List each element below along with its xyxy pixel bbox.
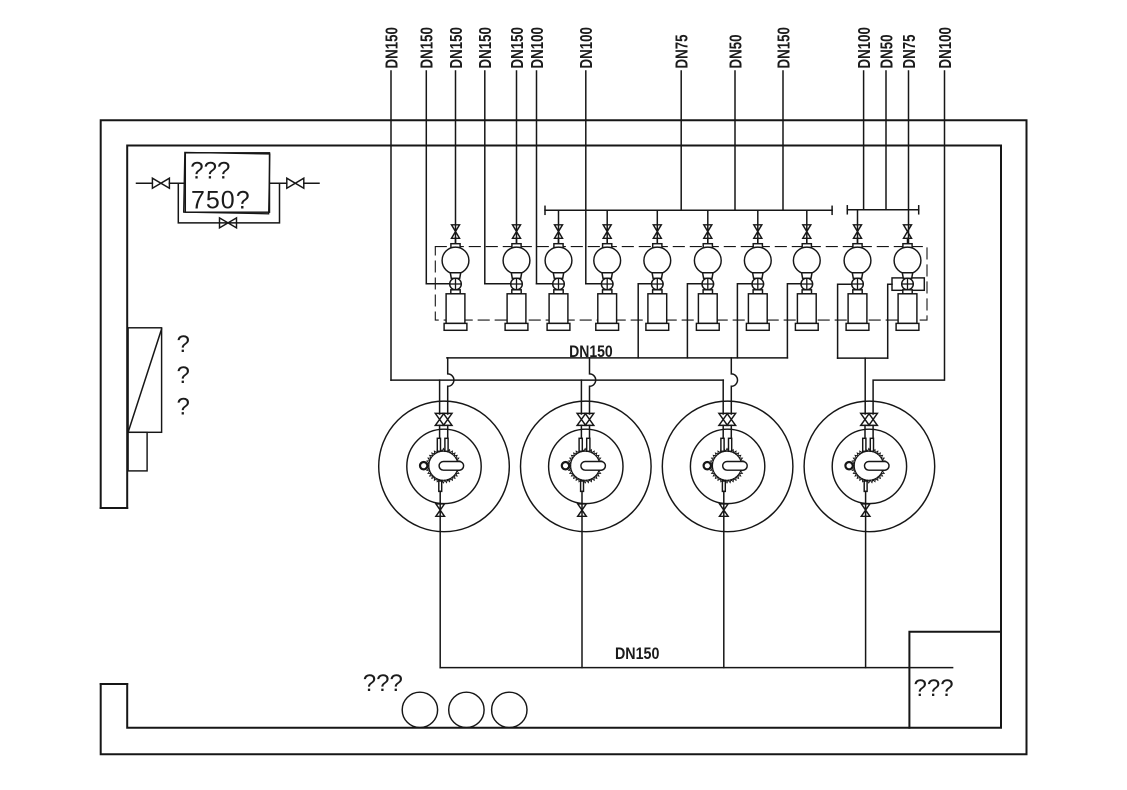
pipe: riser to P3 check valve xyxy=(537,283,553,285)
pump P2 lower flange xyxy=(512,290,521,294)
pump P7 check valve horizontal bar xyxy=(752,283,764,285)
B3 left feed pipe xyxy=(722,425,724,438)
riser pipe DN50 (to header H2) xyxy=(885,71,887,210)
header H1 left end tick xyxy=(544,206,546,214)
pump P7 lower flange xyxy=(753,290,762,294)
riser pipe DN100 (feeds big pump B4 right) xyxy=(873,71,944,414)
pump P4 body xyxy=(594,247,621,274)
pump P5 check valve horizontal bar xyxy=(652,283,664,285)
B1 bottom nozzle xyxy=(439,481,442,491)
valve on B3 discharge xyxy=(720,504,729,516)
pump P4 check valve horizontal bar xyxy=(601,283,613,285)
header H1 drop to pump at x=707.8 xyxy=(707,210,709,243)
svg-text:750?: 750? xyxy=(191,186,251,214)
pump P1 neck xyxy=(450,273,460,279)
pump P5 inlet stub xyxy=(656,238,658,243)
riser pipe DN150 (to pump P2 check valve) xyxy=(484,71,486,284)
svg-text:DN150: DN150 xyxy=(477,27,496,68)
svg-text:DN150: DN150 xyxy=(615,645,660,663)
valve on B2 left feed xyxy=(577,413,586,425)
floor drain circle 2 xyxy=(449,692,484,727)
B3 impeller gear xyxy=(712,451,741,480)
pump P10 inlet stub xyxy=(907,238,909,243)
pump P8 check valve vertical bar xyxy=(806,278,808,290)
B3 right nozzle xyxy=(729,438,732,451)
pump P3 check valve vertical bar xyxy=(558,278,560,290)
pump P10 casing xyxy=(898,294,917,324)
svg-text:?: ? xyxy=(177,394,190,421)
B3 shaft key slot xyxy=(723,462,748,471)
svg-text:DN100: DN100 xyxy=(528,27,547,68)
pump P3 casing xyxy=(549,294,568,324)
valve on bypass xyxy=(220,218,237,228)
pump P6 body xyxy=(694,247,721,274)
pump P2 check valve xyxy=(511,278,523,290)
pump P2 base plate xyxy=(505,323,528,330)
pipe valve to heat exchanger xyxy=(169,182,184,184)
B2 impeller gear xyxy=(571,451,600,480)
pump P3 base plate xyxy=(547,323,570,330)
svg-text:DN50: DN50 xyxy=(727,35,746,69)
svg-text:DN100: DN100 xyxy=(855,27,874,68)
pump P8 base plate xyxy=(795,323,818,330)
header H2 right end tick xyxy=(918,206,920,214)
pump P1 casing xyxy=(446,294,465,324)
pump P10 neck xyxy=(902,273,912,279)
valve on B3 right feed xyxy=(727,413,736,425)
riser pipe DN50 (to header H1) xyxy=(734,71,736,210)
pipe: P7 discharge down to upper manifold xyxy=(737,284,752,358)
riser pipe DN75 (to header H1) xyxy=(680,71,682,210)
B3 shaft end xyxy=(704,462,711,469)
pump P1 check valve xyxy=(450,278,462,290)
pump P3 inlet stub xyxy=(558,238,560,243)
B2 left feed pipe xyxy=(580,425,582,438)
pipe: riser to P2 check valve xyxy=(485,283,511,285)
header H2 drop to pump P9 xyxy=(857,210,859,244)
B2 discharge pipe down to bottom manifold xyxy=(581,491,583,667)
pump P9 check valve xyxy=(852,278,864,290)
pipe: P8 discharge down to upper manifold xyxy=(787,284,801,358)
B2 right feed pipe xyxy=(589,425,591,438)
pump P4 top flange xyxy=(603,244,612,248)
header H1 right end tick xyxy=(831,206,833,214)
valve on B4 right feed xyxy=(869,413,878,425)
B1 discharge pipe down to bottom manifold xyxy=(439,491,441,667)
heat exchanger bypass pipe xyxy=(178,183,279,223)
valve on pump P1 inlet xyxy=(452,225,460,239)
header H1 drop to pump at x=558.5 xyxy=(558,210,560,243)
pipe drop lower manifold to B1 left valve xyxy=(439,380,441,414)
svg-text:?: ? xyxy=(177,362,190,389)
valve body rect on pump P10 discharge xyxy=(892,278,924,290)
header H2 left end tick xyxy=(846,206,848,214)
header H2 xyxy=(847,209,918,211)
B4 left feed pipe xyxy=(864,425,866,438)
floor drain circle 1 xyxy=(402,692,437,727)
header H1 drop to pump at x=607.2 xyxy=(606,210,608,243)
pipe: P10 discharge down to B4 feed loop xyxy=(888,284,892,358)
header H1 drop to pump at x=657.3 xyxy=(656,210,658,243)
pump P7 inlet stub xyxy=(757,238,759,243)
B1 left feed pipe xyxy=(439,425,441,438)
pump P5 casing xyxy=(648,294,667,324)
pump P2 check valve horizontal bar xyxy=(511,283,523,285)
sump pit box bottom-right xyxy=(909,632,1001,728)
pump P9 neck xyxy=(852,273,862,279)
pipe drop upper manifold to B3 right valve (with crossover arc) xyxy=(731,358,737,414)
pump P5 neck xyxy=(652,273,662,279)
svg-text:DN150: DN150 xyxy=(775,27,794,68)
pump P10 check valve xyxy=(902,278,914,290)
riser pipe DN100 (to pump P4 check valve) xyxy=(585,71,587,284)
pump P6 casing xyxy=(698,294,717,324)
B1 left nozzle xyxy=(437,438,440,451)
pump P1 body xyxy=(442,247,469,274)
valve on pump P5 inlet xyxy=(653,225,661,239)
valve on pump P2 inlet xyxy=(513,225,521,239)
pump P4 casing xyxy=(598,294,617,324)
wall: door opening cap bottom (left wall) xyxy=(101,683,128,685)
pipe: riser to P4 check valve xyxy=(586,283,602,285)
pipe drop to big pump B4 left valve xyxy=(864,358,866,414)
pump P9 body xyxy=(844,247,871,274)
B3 left nozzle xyxy=(721,438,724,451)
pump P9 base plate xyxy=(846,323,869,330)
B4 bottom nozzle xyxy=(864,481,867,491)
pipe drop upper manifold to B2 right valve (with crossover arc) xyxy=(590,358,596,414)
tank (left wall) xyxy=(128,328,162,433)
valve on pump P3 inlet xyxy=(555,225,563,239)
svg-text:DN150: DN150 xyxy=(383,27,402,68)
pump P10 check valve horizontal bar xyxy=(902,283,914,285)
pump P7 top flange xyxy=(753,244,762,248)
pump P5 check valve vertical bar xyxy=(656,278,658,290)
valve on pump P9 inlet xyxy=(854,225,862,239)
pump P10 lower flange xyxy=(903,290,912,294)
lower manifold DN150 (suction) xyxy=(391,379,723,381)
pump P2 casing xyxy=(507,294,526,324)
pump P1 lower flange xyxy=(451,290,460,294)
pump P9 casing xyxy=(848,294,867,324)
B2 shaft key slot xyxy=(581,462,606,471)
valve on B4 discharge xyxy=(861,504,870,516)
header H1 drop to pump at x=757.8 xyxy=(757,210,759,243)
wall: inner face xyxy=(127,146,1001,728)
pipe into heat exchanger (left) xyxy=(137,182,153,184)
big pump B3 inner casing xyxy=(690,429,764,503)
pump P8 check valve horizontal bar xyxy=(801,283,813,285)
pump P6 check valve horizontal bar xyxy=(702,283,714,285)
pump P7 neck xyxy=(753,273,763,279)
pump P3 check valve xyxy=(553,278,565,290)
B4 shaft key slot xyxy=(865,462,890,471)
pipe after right valve xyxy=(304,182,319,184)
pump P4 neck xyxy=(602,273,612,279)
wall: door opening cap top (left wall) xyxy=(101,507,128,509)
pump P1 check valve horizontal bar xyxy=(450,283,462,285)
big pump B4 outer casing xyxy=(804,401,935,532)
wall: outer building outline with left door opening xyxy=(101,120,1027,754)
B3 bottom nozzle xyxy=(722,481,725,491)
svg-text:???: ??? xyxy=(190,157,230,184)
valve on pump P8 inlet xyxy=(803,225,811,239)
pipe: riser to P1 check valve xyxy=(426,283,449,285)
pump P7 casing xyxy=(748,294,767,324)
pump P1 inlet stub xyxy=(455,238,457,243)
pump P2 body xyxy=(503,247,530,274)
pump P5 base plate xyxy=(646,323,669,330)
valve on pump P6 inlet xyxy=(704,225,712,239)
riser pipe DN150 (to header H1) xyxy=(782,71,784,210)
tank diagonal xyxy=(129,329,162,431)
pump P6 top flange xyxy=(703,244,712,248)
B2 right nozzle xyxy=(587,438,590,451)
B1 right nozzle xyxy=(445,438,448,451)
pump P6 neck xyxy=(703,273,713,279)
svg-text:DN150: DN150 xyxy=(418,27,437,68)
B2 left nozzle xyxy=(579,438,582,451)
valve on B1 left feed xyxy=(435,413,444,425)
floor drain circle 3 xyxy=(492,692,527,727)
B3 right feed pipe xyxy=(730,425,732,438)
pump P10 check valve vertical bar xyxy=(907,278,909,290)
pump P3 top flange xyxy=(554,244,563,248)
svg-text:DN75: DN75 xyxy=(673,34,692,68)
pump P2 inlet stub xyxy=(516,238,518,243)
svg-text:DN150: DN150 xyxy=(508,27,527,68)
pump P9 check valve horizontal bar xyxy=(852,283,864,285)
pump P4 inlet stub xyxy=(606,238,608,243)
B1 right feed pipe xyxy=(447,425,449,438)
pipe out of heat exchanger (right) xyxy=(270,182,287,184)
pump P5 lower flange xyxy=(653,290,662,294)
pump P6 check valve xyxy=(702,278,714,290)
header H1 xyxy=(545,209,832,211)
pump P8 casing xyxy=(797,294,816,324)
valve on pump P4 inlet xyxy=(603,225,611,239)
B4 discharge pipe down to bottom manifold xyxy=(865,491,867,667)
valve on pump P7 inlet xyxy=(754,225,762,239)
pipe: P6 discharge down to upper manifold xyxy=(687,284,702,358)
B4 shaft end xyxy=(845,462,852,469)
riser pipe DN100 (to pump P3 check valve) xyxy=(536,71,538,284)
pump P8 check valve xyxy=(801,278,813,290)
svg-text:?: ? xyxy=(177,331,190,358)
pump P8 inlet stub xyxy=(806,238,808,243)
pump P5 body xyxy=(644,247,671,274)
pump P7 body xyxy=(744,247,771,274)
riser pipe DN100 (to header H2) xyxy=(863,71,865,210)
pump P8 lower flange xyxy=(802,290,811,294)
B2 bottom nozzle xyxy=(581,481,584,491)
pump P10 base plate xyxy=(896,323,919,330)
big pump B1 outer casing xyxy=(379,401,510,532)
pump P9 lower flange xyxy=(853,290,862,294)
pump P1 check valve vertical bar xyxy=(455,278,457,290)
B1 shaft end xyxy=(420,462,427,469)
B4 right feed pipe xyxy=(872,425,874,438)
B1 shaft key slot xyxy=(439,462,464,471)
pump P5 top flange xyxy=(653,244,662,248)
pump P6 check valve vertical bar xyxy=(707,278,709,290)
B1 impeller gear xyxy=(429,451,458,480)
svg-text:DN150: DN150 xyxy=(569,343,613,361)
pump P6 base plate xyxy=(696,323,719,330)
pipe: B4 feed loop joining P9/P10 xyxy=(838,357,888,359)
pump P2 neck xyxy=(511,273,521,279)
svg-text:DN100: DN100 xyxy=(936,27,955,68)
pump P9 top flange xyxy=(853,244,862,248)
valve on B2 discharge xyxy=(578,504,587,516)
valve on B1 discharge xyxy=(436,504,445,516)
pump P6 inlet stub xyxy=(707,238,709,243)
pump P3 body xyxy=(545,247,572,274)
pump P7 check valve vertical bar xyxy=(757,278,759,290)
upper manifold (pump discharge collector) xyxy=(447,357,788,359)
riser pipe DN150 (to pump P1 top valve) xyxy=(455,71,457,244)
pump P2 check valve vertical bar xyxy=(516,278,518,290)
pump P7 check valve xyxy=(752,278,764,290)
pipe drop lower manifold to B3 left valve xyxy=(722,380,724,414)
pump P8 neck xyxy=(802,273,812,279)
pump P3 lower flange xyxy=(554,290,563,294)
pump P2 top flange xyxy=(512,244,521,248)
pump P4 base plate xyxy=(596,323,619,330)
big pump B3 outer casing xyxy=(662,401,793,532)
pipe drop lower manifold to B2 left valve xyxy=(580,380,582,414)
bottom manifold DN150 xyxy=(440,667,952,669)
big pump B2 inner casing xyxy=(549,429,623,503)
pump P7 base plate xyxy=(746,323,769,330)
valve on B4 left feed xyxy=(861,413,870,425)
pump P6 lower flange xyxy=(703,290,712,294)
heat exchanger box (tilted outline) xyxy=(184,152,270,213)
pump P1 base plate xyxy=(444,323,467,330)
svg-text:???: ??? xyxy=(363,670,403,697)
B2 shaft end xyxy=(562,462,569,469)
B4 left nozzle xyxy=(863,438,866,451)
pump P4 lower flange xyxy=(603,290,612,294)
B3 discharge pipe down to bottom manifold xyxy=(723,491,725,667)
riser pipe DN150 (to pump P2 top valve) xyxy=(516,71,518,244)
pump P8 body xyxy=(793,247,820,274)
big pump B4 inner casing xyxy=(832,429,906,503)
big pump B1 inner casing xyxy=(407,429,481,503)
B4 impeller gear xyxy=(854,451,883,480)
svg-text:DN50: DN50 xyxy=(878,35,897,69)
tank lower compartment xyxy=(128,432,147,471)
valve on B1 right feed xyxy=(443,413,452,425)
pump P4 check valve vertical bar xyxy=(606,278,608,290)
valve right of heat exchanger xyxy=(287,178,304,188)
svg-text:DN75: DN75 xyxy=(900,34,919,68)
pump P10 top flange xyxy=(903,244,912,248)
pump P3 neck xyxy=(553,273,563,279)
header H1 drop to pump at x=806.8 xyxy=(806,210,808,243)
pump P9 inlet stub xyxy=(857,238,859,243)
B4 right nozzle xyxy=(870,438,873,451)
svg-text:DN100: DN100 xyxy=(578,27,597,68)
valve on B3 left feed xyxy=(719,413,728,425)
pump P10 body xyxy=(894,247,921,274)
pump P8 top flange xyxy=(802,244,811,248)
heat exchanger box xyxy=(185,153,269,212)
riser pipe DN150 (to pump P1 check valve) xyxy=(425,71,427,284)
big pump B2 outer casing xyxy=(521,401,652,532)
pump P5 check valve xyxy=(652,278,664,290)
riser pipe DN75 (to pump P10 top valve) xyxy=(908,71,910,244)
pipe drop upper manifold to B1 right valve (with crossover arc) xyxy=(448,358,454,414)
valve on pump P10 inlet xyxy=(904,225,912,239)
pump P9 check valve vertical bar xyxy=(857,278,859,290)
pump P1 top flange xyxy=(451,244,460,248)
pipe: P9 discharge down to B4 feed loop xyxy=(838,284,852,358)
dashed equipment enclosure around pump row xyxy=(435,247,927,321)
pump P4 check valve xyxy=(601,278,613,290)
svg-text:DN150: DN150 xyxy=(447,27,466,68)
pump P3 check valve horizontal bar xyxy=(553,283,565,285)
valve on B2 right feed xyxy=(585,413,594,425)
svg-text:???: ??? xyxy=(914,675,954,702)
riser pipe DN150 (to suction manifold) xyxy=(390,71,392,380)
valve left of heat exchanger xyxy=(152,178,169,188)
pipe: P5 discharge down to upper manifold xyxy=(638,284,651,358)
